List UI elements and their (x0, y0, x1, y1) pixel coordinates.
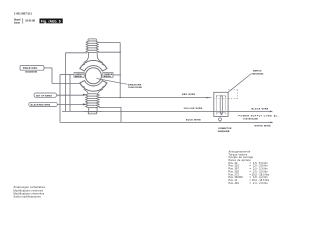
svg-text:160980043B: 160980043B (218, 130, 230, 133)
svg-text:BLACK/RED WIRE: BLACK/RED WIRE (31, 104, 51, 107)
svg-text:2,3 - 2,6 Nm: 2,3 - 2,6 Nm (253, 182, 268, 185)
svg-text:AC -: AC - (274, 114, 280, 117)
svg-text:BLUE WIRE: BLUE WIRE (186, 119, 201, 121)
svg-text:YELLOW WIRE: YELLOW WIRE (184, 108, 203, 110)
svg-text:RED WIRE: RED WIRE (182, 94, 196, 96)
svg-text:16-01-98: 16-01-98 (25, 20, 35, 23)
svg-text:Fig. /Abb. 6: Fig. /Abb. 6 (41, 20, 61, 24)
svg-text:160401066B: 160401066B (128, 86, 142, 89)
svg-text:Salvo modificaciones: Salvo modificaciones (14, 195, 42, 198)
svg-text:160422033B: 160422033B (25, 71, 37, 74)
svg-text:Pos. 419: Pos. 419 (229, 182, 240, 185)
svg-text:160980624B: 160980624B (243, 118, 258, 121)
svg-text:Issue: Issue (14, 22, 21, 24)
svg-text:SET OF WIRES: SET OF WIRES (36, 95, 53, 97)
svg-text:SWITCH: SWITCH (253, 71, 262, 73)
svg-text:FIELD COIL: FIELD COIL (23, 68, 38, 70)
svg-text:CONNECTOR: CONNECTOR (218, 128, 232, 130)
svg-text:1607200634: 1607200634 (252, 72, 264, 75)
svg-text:Stand: Stand (14, 19, 21, 22)
svg-text:BRUSH: BRUSH (104, 76, 111, 78)
svg-text:WHITE WIRE: WHITE WIRE (255, 125, 272, 127)
svg-text:POWER SUPPLY CORD: POWER SUPPLY CORD (239, 115, 273, 117)
svg-text:ARMATURE: ARMATURE (128, 83, 142, 86)
svg-text:BRUSH: BRUSH (75, 76, 82, 78)
svg-text:2 601 NB7 011: 2 601 NB7 011 (14, 12, 32, 15)
svg-text:BLACK WIRE: BLACK WIRE (252, 107, 269, 110)
